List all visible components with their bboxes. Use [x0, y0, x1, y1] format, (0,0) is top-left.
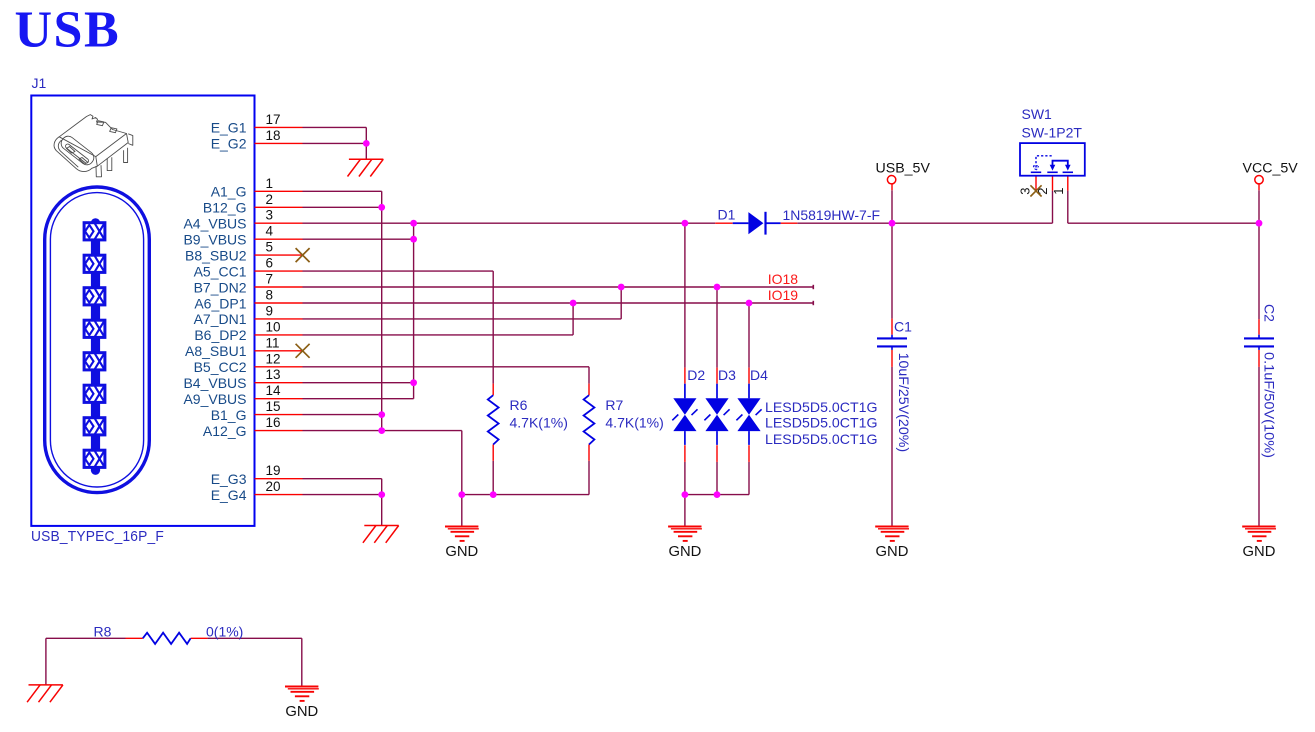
pin 18 E_G2	[211, 128, 303, 152]
svg-text:15: 15	[266, 399, 281, 414]
TVS diode D2	[672, 384, 697, 445]
junction VBUS at D2	[682, 220, 689, 227]
svg-text:D2: D2	[687, 367, 705, 383]
svg-text:GND: GND	[445, 544, 478, 560]
junction DN at pin9 branch	[618, 284, 625, 291]
svg-text:E_G1: E_G1	[211, 120, 247, 136]
switch SW1 SW-1P2T	[1020, 143, 1085, 176]
svg-text:E_G2: E_G2	[211, 136, 247, 152]
junction USB_5V / C1	[889, 220, 896, 227]
svg-text:USB_5V: USB_5V	[876, 160, 931, 176]
J1 face view: center tongue bar	[91, 218, 100, 475]
stub D3 bottom	[716, 445, 718, 462]
pin 20 E_G4	[211, 479, 303, 503]
chassis ground (E_G1/E_G2)	[348, 159, 384, 176]
svg-text:0(1%): 0(1%)	[206, 623, 243, 639]
svg-text:R8: R8	[94, 623, 112, 639]
svg-text:LESD5D5.0CT1G: LESD5D5.0CT1G	[765, 399, 878, 415]
wire net VBUS (pins 3,4,13,14 to D1 anode, D2, SW1)	[303, 191, 1053, 399]
wire R8 net	[46, 638, 302, 686]
stub R6 top	[492, 384, 494, 396]
chassis ground (R8 left)	[27, 685, 63, 702]
svg-text:B9_VBUS: B9_VBUS	[183, 232, 246, 248]
earth ground C1	[875, 527, 909, 541]
stub D4 bottom	[748, 445, 750, 462]
power flag VCC_5V	[1243, 160, 1299, 184]
resistor R7 4.7K	[584, 395, 595, 444]
wire net CC1 (pin 6 to R6)	[303, 271, 494, 495]
wire left ground rail (pin16, R6, R7)	[462, 495, 589, 527]
values LESD5D5.0CT1G x3	[765, 399, 878, 447]
svg-text:1: 1	[266, 176, 274, 191]
junction DP at D4	[746, 300, 753, 307]
junction VBUS bus pin13	[410, 379, 417, 386]
svg-text:R7: R7	[605, 397, 623, 413]
svg-text:4.7K(1%): 4.7K(1%)	[605, 415, 663, 431]
svg-text:E_G4: E_G4	[211, 487, 247, 503]
svg-text:16: 16	[266, 415, 281, 430]
svg-text:SW1: SW1	[1022, 106, 1053, 122]
pin 5 B8_SBU2 (no connect)	[185, 240, 310, 264]
svg-text:R6: R6	[510, 397, 528, 413]
svg-text:8: 8	[266, 288, 274, 303]
svg-text:USB_TYPEC_16P_F: USB_TYPEC_16P_F	[31, 529, 164, 545]
svg-text:J1: J1	[32, 75, 47, 91]
junction B1_G	[378, 411, 385, 418]
svg-text:IO18: IO18	[768, 271, 799, 287]
pin 13 B4_VBUS	[183, 367, 302, 391]
earth ground R8	[285, 687, 319, 701]
svg-text:9: 9	[266, 303, 274, 318]
svg-text:SW-1P2T: SW-1P2T	[1022, 124, 1083, 140]
svg-text:LESD5D5.0CT1G: LESD5D5.0CT1G	[765, 431, 878, 447]
wire net CC2 (pin 12 to R7)	[303, 367, 590, 495]
J1 pins	[183, 112, 309, 503]
stub D1 cathode	[781, 222, 798, 224]
svg-text:A12_G: A12_G	[203, 423, 247, 439]
wire net DP / IO19 (pins 8,10 and D4)	[303, 301, 814, 368]
svg-text:A7_DN1: A7_DN1	[194, 311, 247, 327]
svg-text:20: 20	[266, 479, 281, 494]
svg-text:IO19: IO19	[768, 287, 799, 303]
connector J1 box	[31, 96, 254, 526]
svg-text:GND: GND	[285, 704, 318, 720]
junction VCC_5V / C2	[1256, 220, 1263, 227]
svg-text:4: 4	[266, 224, 274, 239]
svg-text:12: 12	[266, 351, 281, 366]
svg-text:B4_VBUS: B4_VBUS	[183, 375, 246, 391]
pin 17 E_G1	[211, 112, 303, 136]
svg-text:VCC_5V: VCC_5V	[1243, 160, 1299, 176]
pin 12 B5_CC2	[194, 351, 303, 375]
junction right rail at D2	[682, 491, 689, 498]
pin 19 E_G3	[211, 463, 303, 487]
stub C2 top	[1258, 319, 1260, 335]
junction B12_G	[378, 204, 385, 211]
svg-text:LESD5D5.0CT1G: LESD5D5.0CT1G	[765, 415, 878, 431]
svg-text:GND: GND	[668, 544, 701, 560]
earth ground C2	[1242, 527, 1276, 541]
stub SW1 pin1	[1067, 176, 1069, 191]
wire net DN / IO18 (pins 7,9 and D3)	[303, 285, 814, 368]
junction DP at pin10 branch	[570, 300, 577, 307]
power flag USB_5V	[876, 160, 931, 184]
pin 2 B12_G	[203, 192, 303, 216]
svg-text:3: 3	[1018, 188, 1033, 195]
wire SW1 pin1 to VCC_5V and C2 branch	[1068, 190, 1259, 526]
stub C1 top	[891, 319, 893, 335]
svg-text:A4_VBUS: A4_VBUS	[183, 216, 246, 232]
red power stubs	[126, 176, 1260, 639]
svg-text:D4: D4	[750, 367, 768, 383]
pin 8 A6_DP1	[194, 288, 302, 312]
capacitor C1	[877, 335, 907, 350]
stub VCC_5V flag	[1258, 184, 1260, 190]
stub R7 bottom	[588, 445, 590, 461]
J1 face view: contact pads	[84, 223, 105, 468]
svg-text:3: 3	[266, 208, 274, 223]
earth ground left rail	[445, 527, 479, 541]
wire right ground rail (D2,D3,D4)	[685, 462, 749, 527]
svg-text:17: 17	[266, 112, 281, 127]
svg-text:18: 18	[266, 128, 281, 143]
wire USB_5V and C1 branch	[891, 190, 893, 526]
svg-text:A8_SBU1: A8_SBU1	[185, 343, 247, 359]
pin 14 A9_VBUS	[183, 383, 302, 407]
J1 3D connector sketch	[54, 115, 133, 177]
svg-text:D1: D1	[718, 207, 736, 223]
svg-text:14: 14	[266, 383, 282, 398]
svg-text:A5_CC1: A5_CC1	[194, 263, 247, 279]
svg-text:E_G3: E_G3	[211, 471, 247, 487]
svg-text:1: 1	[1051, 188, 1066, 195]
wire net E_G3/E_G4 to chassis ground	[303, 479, 382, 526]
stub SW1 pin3	[1035, 176, 1037, 191]
TVS diode D3	[704, 384, 729, 445]
svg-text:0.1uF/50V(10%): 0.1uF/50V(10%)	[1262, 352, 1278, 458]
svg-text:B12_G: B12_G	[203, 200, 247, 216]
pin 1 A1_G	[211, 176, 303, 200]
pin 15 B1_G	[211, 399, 303, 423]
wire net GND bus (pins 1,2,15,16)	[303, 191, 462, 494]
svg-text:GND: GND	[1243, 544, 1276, 560]
svg-text:C1: C1	[894, 319, 912, 335]
svg-text:B1_G: B1_G	[211, 407, 247, 423]
svg-text:13: 13	[266, 367, 281, 382]
stub R8 left	[126, 637, 143, 639]
stub D2 bottom	[684, 445, 686, 462]
earth ground right rail	[668, 527, 702, 541]
stub R8 right	[191, 637, 208, 639]
svg-text:A6_DP1: A6_DP1	[194, 295, 246, 311]
stub C1 bottom	[891, 350, 893, 367]
resistor R6 4.7K	[488, 395, 499, 444]
SW1 pin3 no-connect X	[1030, 185, 1041, 196]
svg-text:19: 19	[266, 463, 281, 478]
svg-text:10uF/25V(20%): 10uF/25V(20%)	[896, 353, 912, 453]
svg-text:1N5819HW-7-F: 1N5819HW-7-F	[783, 207, 881, 223]
junction A12_G	[378, 427, 385, 434]
junction left rail at R6	[490, 491, 497, 498]
junction E_G2	[363, 140, 370, 147]
svg-text:5: 5	[266, 240, 274, 255]
stub D4 top	[748, 368, 750, 384]
stub C2 bottom	[1258, 350, 1260, 367]
chassis ground (E_G3/E_G4)	[363, 526, 399, 543]
pin 7 B7_DN2	[194, 272, 303, 296]
stub D2 top	[684, 368, 686, 384]
wire net E_G1/E_G2 to chassis ground	[303, 127, 367, 159]
svg-text:2: 2	[266, 192, 274, 207]
diode D1 1N5819HW-7-F	[733, 212, 781, 235]
stub R6 bottom	[492, 445, 494, 461]
capacitor C2	[1244, 335, 1274, 350]
pin 9 A7_DN1	[194, 303, 303, 327]
svg-text:C2: C2	[1262, 304, 1278, 322]
junction right rail at D3	[714, 491, 721, 498]
junction VBUS bus pin4	[410, 236, 417, 243]
svg-text:A1_G: A1_G	[211, 184, 247, 200]
junction VBUS bus pin3	[410, 220, 417, 227]
junction left rail at pin16 drop	[458, 491, 465, 498]
svg-text:10: 10	[266, 319, 281, 334]
TVS diode D4	[736, 384, 761, 445]
pin 16 A12_G	[203, 415, 303, 439]
stub D1 anode	[715, 222, 733, 224]
stub R7 top	[588, 384, 590, 396]
svg-text:4.7K(1%): 4.7K(1%)	[510, 415, 568, 431]
pin 11 A8_SBU1 (no connect)	[185, 335, 310, 359]
svg-text:B7_DN2: B7_DN2	[194, 279, 247, 295]
svg-text:6: 6	[266, 256, 274, 271]
stub D3 top	[716, 368, 718, 384]
svg-text:A9_VBUS: A9_VBUS	[183, 391, 246, 407]
pin 4 B9_VBUS	[183, 224, 302, 248]
J1 face view: outer stadium	[45, 187, 150, 493]
junction E_G4	[378, 491, 385, 498]
svg-text:USB: USB	[15, 2, 121, 59]
J1 face view: inner stadium outline	[50, 193, 143, 487]
stub USB_5V flag	[891, 184, 893, 190]
pin 6 A5_CC1	[194, 256, 303, 280]
svg-text:B8_SBU2: B8_SBU2	[185, 247, 247, 263]
svg-text:7: 7	[266, 272, 274, 287]
svg-text:B6_DP2: B6_DP2	[194, 327, 246, 343]
svg-text:B5_CC2: B5_CC2	[194, 359, 247, 375]
resistor R8 0 ohm	[143, 633, 191, 644]
svg-text:D3: D3	[718, 367, 736, 383]
junction DN at D3	[714, 284, 721, 291]
pin 3 A4_VBUS	[183, 208, 302, 232]
pin 10 B6_DP2	[194, 319, 302, 343]
svg-text:GND: GND	[876, 544, 909, 560]
stub SW1 pin2	[1052, 176, 1054, 191]
svg-text:11: 11	[266, 335, 280, 350]
